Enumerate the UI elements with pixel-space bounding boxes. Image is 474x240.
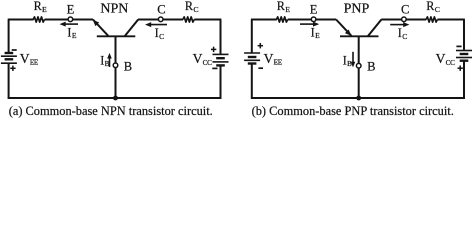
minus sign V_CC — [212, 67, 217, 69]
current arrow I_B (pointing down) — [352, 52, 354, 64]
minus sign V_EE — [12, 49, 17, 51]
wire node C to R_C — [163, 19, 183, 21]
wire right side upper (to V_CC) — [220, 20, 222, 54]
wire bottom (PNP) — [251, 97, 465, 99]
svg-text:C: C — [401, 2, 409, 16]
transistor Q2 base bar — [340, 35, 379, 37]
node C (PNP collector node) — [402, 17, 407, 22]
node B (PNP base node) — [356, 63, 361, 68]
current arrow I_C (pointing right) — [390, 24, 405, 26]
transistor Q2 emitter lead (diagonal) — [336, 20, 351, 36]
wire top-left segment (V_EE to R_E) PNP — [251, 19, 277, 21]
wire left side upper (PNP) — [251, 20, 253, 54]
svg-text:E: E — [310, 2, 318, 16]
wire R_C to top-right corner (PNP) — [437, 19, 464, 21]
battery V_EE (PNP emitter supply) — [244, 52, 260, 54]
svg-text:NPN: NPN — [100, 2, 128, 17]
transistor Q1 emitter lead (diagonal) — [93, 20, 108, 36]
current arrow I_E (pointing left) — [64, 23, 78, 25]
resistor R4 (R_C, PNP collector resistor) — [426, 17, 437, 22]
transistor Q2 emitter arrow (PNP, pointing in) — [345, 30, 352, 36]
svg-text:(b) Common-base PNP transistor: (b) Common-base PNP transistor circuit. — [252, 104, 454, 118]
wire top-left segment (V_EE to R_E) — [8, 19, 34, 21]
junction (base to bottom wire) — [113, 96, 118, 101]
wire collector to node C (PNP) — [381, 19, 404, 21]
wire collector to node C — [138, 19, 161, 21]
wire left side upper — [8, 20, 10, 54]
svg-text:B: B — [367, 59, 375, 73]
minus sign V_EE (PNP) — [258, 67, 263, 69]
plus sign V_EE (PNP) — [258, 45, 263, 47]
plus sign V_CC (PNP) — [458, 67, 463, 69]
minus sign V_CC (PNP) — [456, 45, 461, 47]
transistor Q1 emitter arrow (NPN, pointing out) — [93, 20, 100, 26]
wire right side upper (to V_CC) PNP — [463, 20, 465, 50]
wire node E to emitter (PNP) — [316, 19, 336, 21]
battery V_CC (PNP collector supply) — [456, 50, 472, 52]
node C (NPN collector node) — [158, 17, 163, 22]
junction (base to bottom wire) PNP — [356, 96, 361, 101]
wire right side lower (PNP) — [463, 61, 465, 99]
battery V_CC (NPN collector supply) — [213, 53, 229, 55]
plus sign V_CC — [211, 48, 216, 50]
wire left side lower — [8, 63, 10, 99]
wire bottom (NPN) — [8, 97, 222, 99]
plus sign V_EE — [10, 67, 15, 69]
current arrow I_B (pointing up) — [109, 57, 111, 67]
resistor R3 (R_E, PNP emitter resistor) — [276, 17, 287, 22]
node B (NPN base node) — [113, 63, 118, 68]
svg-text:B: B — [124, 59, 132, 73]
wire R_C to top-right corner — [194, 19, 221, 21]
node E (PNP emitter node) — [311, 17, 316, 22]
svg-text:PNP: PNP — [344, 2, 370, 17]
wire node E to emitter — [73, 19, 93, 21]
transistor Q1 base lead — [115, 36, 117, 98]
current arrow I_C (pointing left) — [150, 24, 167, 26]
wire right side lower — [220, 65, 222, 98]
wire left side lower (PNP) — [251, 64, 253, 99]
svg-text:C: C — [157, 2, 165, 16]
transistor Q2 collector lead (diagonal) — [368, 20, 382, 37]
node E (NPN emitter node) — [68, 17, 73, 22]
current arrow I_E (pointing right) — [300, 23, 315, 25]
svg-text:E: E — [67, 2, 75, 16]
transistor Q1 collector lead (diagonal) — [125, 20, 139, 37]
transistor Q2 base lead — [358, 36, 360, 98]
transistor Q1 base bar — [97, 35, 136, 37]
wire node C to R_C (PNP) — [406, 19, 426, 21]
battery V_EE (NPN emitter supply) — [5, 52, 14, 54]
resistor R2 (R_C, NPN collector resistor) — [183, 17, 194, 22]
wire R_E to node E (PNP) — [288, 19, 314, 21]
svg-text:(a) Common-base NPN transistor: (a) Common-base NPN transistor circuit. — [9, 104, 213, 118]
wire R_E to node E — [45, 19, 71, 21]
resistor R1 (R_E, NPN emitter resistor) — [33, 17, 44, 22]
